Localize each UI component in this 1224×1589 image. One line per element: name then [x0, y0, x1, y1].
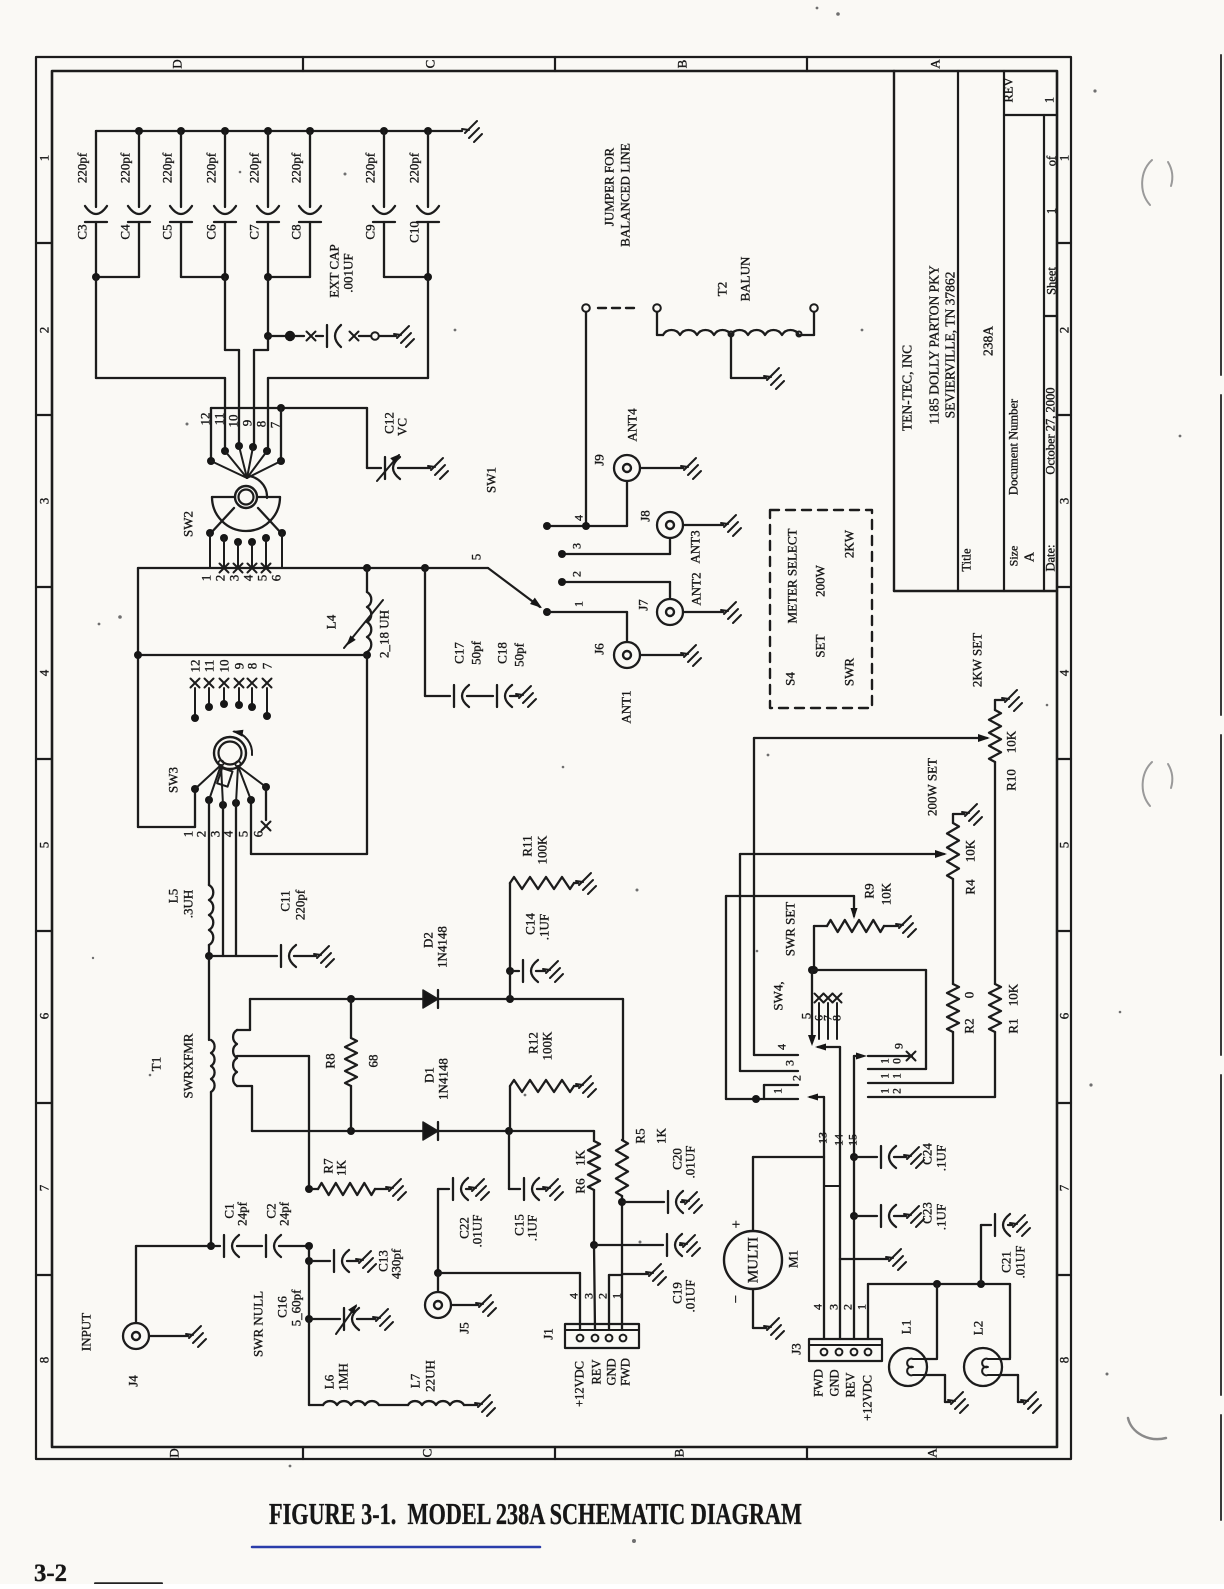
- svg-text:220pf: 220pf: [407, 152, 422, 183]
- svg-text:1: 1: [1057, 155, 1072, 162]
- svg-text:BALANCED LINE: BALANCED LINE: [618, 143, 633, 247]
- svg-text:R8: R8: [323, 1053, 338, 1068]
- svg-text:2: 2: [213, 575, 228, 582]
- svg-text:.1UF: .1UF: [537, 914, 552, 940]
- svg-text:50pf: 50pf: [512, 642, 527, 667]
- svg-text:5: 5: [37, 842, 52, 849]
- svg-text:SWRXFMR: SWRXFMR: [181, 1033, 196, 1098]
- svg-text:1: 1: [1045, 208, 1059, 214]
- svg-text:0: 0: [962, 992, 977, 999]
- svg-text:6: 6: [37, 1012, 52, 1019]
- svg-text:.01UF: .01UF: [683, 1280, 698, 1313]
- svg-text:J1: J1: [541, 1328, 556, 1340]
- svg-text:1N4148: 1N4148: [436, 1058, 451, 1100]
- svg-text:J7: J7: [636, 599, 651, 611]
- svg-text:1: 1: [880, 1073, 892, 1079]
- svg-text:4: 4: [572, 515, 586, 521]
- svg-text:4: 4: [241, 574, 256, 581]
- svg-text:B: B: [675, 59, 690, 68]
- svg-text:4: 4: [775, 1044, 789, 1050]
- svg-text:C5: C5: [160, 224, 175, 239]
- svg-text:8: 8: [37, 1357, 52, 1364]
- svg-text:VC: VC: [395, 418, 410, 436]
- svg-text:220pf: 220pf: [75, 152, 90, 183]
- svg-text:11: 11: [212, 413, 227, 426]
- svg-text:Document Number: Document Number: [1007, 398, 1021, 495]
- svg-text:MULTI: MULTI: [746, 1237, 762, 1283]
- svg-text:238A: 238A: [981, 326, 996, 356]
- svg-text:5: 5: [1057, 842, 1072, 849]
- svg-text:8: 8: [245, 663, 260, 670]
- svg-text:SW2: SW2: [181, 511, 196, 537]
- svg-text:T2: T2: [715, 282, 730, 296]
- svg-text:5: 5: [236, 831, 251, 838]
- svg-text:.1UF: .1UF: [934, 1204, 949, 1230]
- svg-text:10K: 10K: [1004, 730, 1019, 753]
- svg-text:EXT CAP: EXT CAP: [327, 244, 342, 298]
- svg-text:J5: J5: [457, 1322, 472, 1334]
- svg-text:SW1: SW1: [484, 467, 499, 493]
- svg-text:FWD: FWD: [619, 1358, 633, 1386]
- svg-text:50pf: 50pf: [469, 640, 484, 665]
- svg-text:1: 1: [892, 1073, 904, 1079]
- svg-text:430pf: 430pf: [389, 1248, 404, 1279]
- svg-text:REV: REV: [590, 1360, 604, 1385]
- svg-text:.01UF: .01UF: [470, 1215, 485, 1248]
- svg-text:R11: R11: [520, 835, 535, 856]
- svg-text:−: −: [729, 1295, 745, 1303]
- svg-text:3: 3: [582, 1293, 596, 1299]
- svg-text:24pf: 24pf: [277, 1201, 292, 1226]
- svg-text:M1: M1: [786, 1250, 801, 1268]
- svg-text:A: A: [925, 1448, 940, 1458]
- svg-text:C16: C16: [275, 1296, 290, 1318]
- svg-text:C24: C24: [920, 1143, 935, 1165]
- svg-text:2: 2: [570, 571, 584, 577]
- svg-text:9: 9: [892, 1043, 906, 1049]
- svg-text:S4: S4: [783, 672, 798, 686]
- svg-text:C17: C17: [452, 642, 467, 664]
- svg-text:SW3: SW3: [166, 767, 181, 793]
- svg-text:2: 2: [37, 327, 52, 334]
- svg-text:L1: L1: [899, 1320, 914, 1334]
- svg-text:C9: C9: [363, 224, 378, 239]
- svg-text:220pf: 220pf: [118, 152, 133, 183]
- svg-text:100K: 100K: [535, 835, 550, 865]
- svg-text:J3: J3: [789, 1343, 804, 1355]
- svg-text:1: 1: [610, 1293, 624, 1299]
- svg-text:B: B: [672, 1448, 687, 1457]
- svg-text:C: C: [420, 1449, 435, 1458]
- svg-text:1: 1: [771, 1088, 785, 1094]
- svg-text:2: 2: [596, 1293, 610, 1299]
- svg-text:7: 7: [37, 1184, 52, 1191]
- svg-text:14: 14: [832, 1134, 846, 1146]
- svg-text:FWD: FWD: [812, 1369, 826, 1397]
- svg-text:Sheet: Sheet: [1045, 267, 1059, 295]
- svg-text:L2: L2: [971, 1321, 986, 1335]
- svg-text:24pf: 24pf: [235, 1201, 250, 1226]
- svg-text:GND: GND: [605, 1358, 619, 1385]
- svg-text:C: C: [423, 60, 438, 69]
- svg-text:D: D: [170, 59, 185, 68]
- svg-text:L6: L6: [322, 1374, 337, 1389]
- svg-text:10: 10: [226, 415, 241, 428]
- svg-text:5: 5: [255, 575, 270, 582]
- svg-text:220pf: 220pf: [204, 152, 219, 183]
- svg-text:R2: R2: [962, 1018, 977, 1033]
- svg-text:10K: 10K: [879, 882, 894, 905]
- svg-text:T1: T1: [149, 1057, 164, 1071]
- svg-text:R9: R9: [862, 883, 877, 898]
- svg-text:3: 3: [227, 575, 242, 582]
- svg-text:R10: R10: [1004, 769, 1019, 791]
- svg-text:R4: R4: [963, 879, 978, 895]
- svg-text:1: 1: [880, 1088, 892, 1094]
- svg-text:of: of: [1045, 155, 1059, 166]
- svg-text:J4: J4: [126, 1375, 141, 1387]
- svg-text:8: 8: [1057, 1357, 1072, 1364]
- svg-text:4: 4: [811, 1304, 825, 1310]
- svg-text:C23: C23: [920, 1202, 935, 1224]
- svg-text:4: 4: [221, 830, 236, 837]
- svg-text:1: 1: [199, 575, 214, 582]
- svg-text:6: 6: [251, 830, 266, 837]
- svg-text:.1UF: .1UF: [934, 1145, 949, 1171]
- svg-text:J8: J8: [638, 510, 653, 522]
- svg-text:R1: R1: [1006, 1018, 1021, 1033]
- svg-text:1K: 1K: [573, 1149, 588, 1166]
- svg-text:12: 12: [188, 660, 203, 673]
- svg-text:13: 13: [816, 1132, 830, 1144]
- svg-text:J6: J6: [592, 643, 607, 655]
- svg-text:7: 7: [268, 421, 283, 428]
- svg-text:R5: R5: [633, 1128, 648, 1143]
- svg-text:R6: R6: [573, 1178, 588, 1194]
- svg-text:220pf: 220pf: [247, 152, 262, 183]
- svg-text:FIGURE 3-1. MODEL 238A SCHEMA: FIGURE 3-1. MODEL 238A SCHEMATIC DIAGRAM: [269, 1496, 802, 1531]
- svg-text:SWR NULL: SWR NULL: [251, 1291, 266, 1357]
- svg-text:1: 1: [855, 1304, 869, 1310]
- svg-text:ANT3: ANT3: [688, 530, 703, 563]
- svg-text:.001UF: .001UF: [341, 253, 356, 292]
- svg-text:October 27, 2000: October 27, 2000: [1044, 387, 1058, 474]
- svg-text:L7: L7: [408, 1373, 423, 1388]
- svg-text:220pf: 220pf: [160, 152, 175, 183]
- svg-text:2KW: 2KW: [842, 529, 857, 558]
- svg-text:+12VDC: +12VDC: [573, 1361, 587, 1407]
- svg-text:5_60pf: 5_60pf: [289, 1289, 304, 1327]
- svg-text:TEN-TEC, INC: TEN-TEC, INC: [900, 345, 915, 431]
- svg-text:INPUT: INPUT: [79, 1313, 94, 1351]
- svg-text:200W SET: 200W SET: [925, 758, 940, 816]
- svg-text:0: 0: [892, 1058, 904, 1064]
- svg-text:3-2: 3-2: [34, 1560, 67, 1584]
- svg-text:3: 3: [783, 1060, 797, 1066]
- svg-text:C11: C11: [278, 890, 293, 911]
- svg-text:6: 6: [269, 574, 284, 581]
- svg-text:ANT2: ANT2: [689, 572, 704, 605]
- svg-text:3: 3: [1057, 498, 1072, 505]
- svg-text:1: 1: [37, 155, 52, 162]
- svg-text:68: 68: [366, 1055, 381, 1068]
- svg-text:100K: 100K: [540, 1031, 555, 1061]
- svg-text:A: A: [928, 59, 943, 69]
- svg-text:2KW SET: 2KW SET: [970, 633, 985, 687]
- svg-text:2_18 UH: 2_18 UH: [377, 610, 392, 658]
- svg-text:10K: 10K: [963, 839, 978, 862]
- svg-text:BALUN: BALUN: [738, 256, 753, 301]
- svg-text:.01UF: .01UF: [1013, 1246, 1028, 1279]
- svg-text:C8: C8: [289, 224, 304, 239]
- svg-text:C14: C14: [523, 913, 538, 935]
- svg-text:L4: L4: [324, 614, 339, 629]
- svg-text:+: +: [732, 1217, 740, 1233]
- svg-text:D: D: [167, 1448, 182, 1457]
- svg-text:2: 2: [1057, 327, 1072, 334]
- svg-text:SET: SET: [813, 634, 828, 657]
- svg-text:220pf: 220pf: [293, 889, 308, 920]
- svg-text:1: 1: [880, 1058, 892, 1064]
- svg-text:220pf: 220pf: [363, 152, 378, 183]
- svg-text:.1UF: .1UF: [525, 1215, 540, 1241]
- svg-text:4: 4: [1057, 669, 1072, 676]
- svg-text:C4: C4: [118, 224, 133, 240]
- svg-text:2: 2: [841, 1304, 855, 1310]
- svg-text:C18: C18: [495, 642, 510, 664]
- svg-text:3: 3: [570, 543, 584, 549]
- svg-text:1K: 1K: [334, 1159, 349, 1176]
- svg-text:REV: REV: [1002, 78, 1016, 103]
- svg-text:SW4,: SW4,: [771, 981, 786, 1010]
- svg-text:ANT4: ANT4: [625, 408, 640, 442]
- svg-text:SWR SET: SWR SET: [783, 902, 798, 957]
- svg-text:GND: GND: [828, 1369, 842, 1396]
- svg-text:4: 4: [37, 669, 52, 676]
- svg-text:8: 8: [254, 421, 269, 428]
- svg-text:J9: J9: [592, 454, 607, 466]
- svg-text:12: 12: [198, 413, 213, 426]
- svg-text:220pf: 220pf: [289, 152, 304, 183]
- svg-text:1: 1: [572, 601, 586, 607]
- svg-text:2: 2: [790, 1075, 804, 1081]
- svg-text:.01UF: .01UF: [683, 1146, 698, 1179]
- svg-text:9: 9: [240, 420, 255, 427]
- svg-text:D2: D2: [421, 932, 436, 948]
- svg-text:C3: C3: [75, 224, 90, 239]
- svg-text:C7: C7: [247, 224, 262, 240]
- svg-text:.3UH: .3UH: [181, 890, 196, 919]
- svg-text:1: 1: [1043, 97, 1057, 103]
- svg-text:22UH: 22UH: [423, 1360, 438, 1392]
- svg-text:SEVIERVILLE, TN 37862: SEVIERVILLE, TN 37862: [943, 272, 958, 419]
- svg-text:D1: D1: [422, 1067, 437, 1083]
- svg-text:C10: C10: [407, 221, 422, 243]
- svg-text:METER SELECT: METER SELECT: [785, 528, 800, 623]
- svg-text:1185 DOLLY PARTON PKY: 1185 DOLLY PARTON PKY: [927, 265, 942, 424]
- svg-text:JUMPER FOR: JUMPER FOR: [602, 147, 617, 226]
- svg-text:C21: C21: [999, 1251, 1014, 1273]
- svg-text:15: 15: [846, 1134, 860, 1146]
- svg-text:C6: C6: [204, 224, 219, 240]
- svg-text:REV: REV: [844, 1373, 858, 1398]
- svg-text:10: 10: [217, 660, 232, 673]
- svg-text:6: 6: [1057, 1012, 1072, 1019]
- svg-text:R12: R12: [526, 1032, 541, 1054]
- svg-text:1K: 1K: [654, 1127, 669, 1144]
- svg-text:A: A: [1023, 551, 1038, 562]
- svg-text:L5: L5: [166, 889, 181, 903]
- svg-text:7: 7: [1057, 1184, 1072, 1191]
- svg-text:10K: 10K: [1006, 983, 1021, 1006]
- svg-text:11: 11: [202, 660, 217, 673]
- svg-text:Date:: Date:: [1044, 544, 1058, 571]
- svg-text:Size: Size: [1007, 546, 1021, 567]
- svg-text:Title: Title: [960, 548, 974, 572]
- svg-text:2: 2: [892, 1088, 904, 1094]
- svg-text:1N4148: 1N4148: [435, 926, 450, 968]
- svg-text:5: 5: [469, 554, 484, 561]
- svg-text:ANT1: ANT1: [619, 690, 634, 723]
- svg-text:1MH: 1MH: [336, 1363, 351, 1390]
- svg-text:+12VDC: +12VDC: [861, 1375, 875, 1421]
- svg-text:2: 2: [194, 831, 209, 838]
- svg-text:SWR: SWR: [842, 658, 857, 687]
- svg-text:7: 7: [260, 662, 275, 669]
- svg-text:3: 3: [37, 498, 52, 505]
- svg-text:200W: 200W: [813, 564, 828, 597]
- svg-text:4: 4: [567, 1293, 581, 1299]
- svg-text:3: 3: [827, 1304, 841, 1310]
- svg-text:8: 8: [830, 1015, 844, 1021]
